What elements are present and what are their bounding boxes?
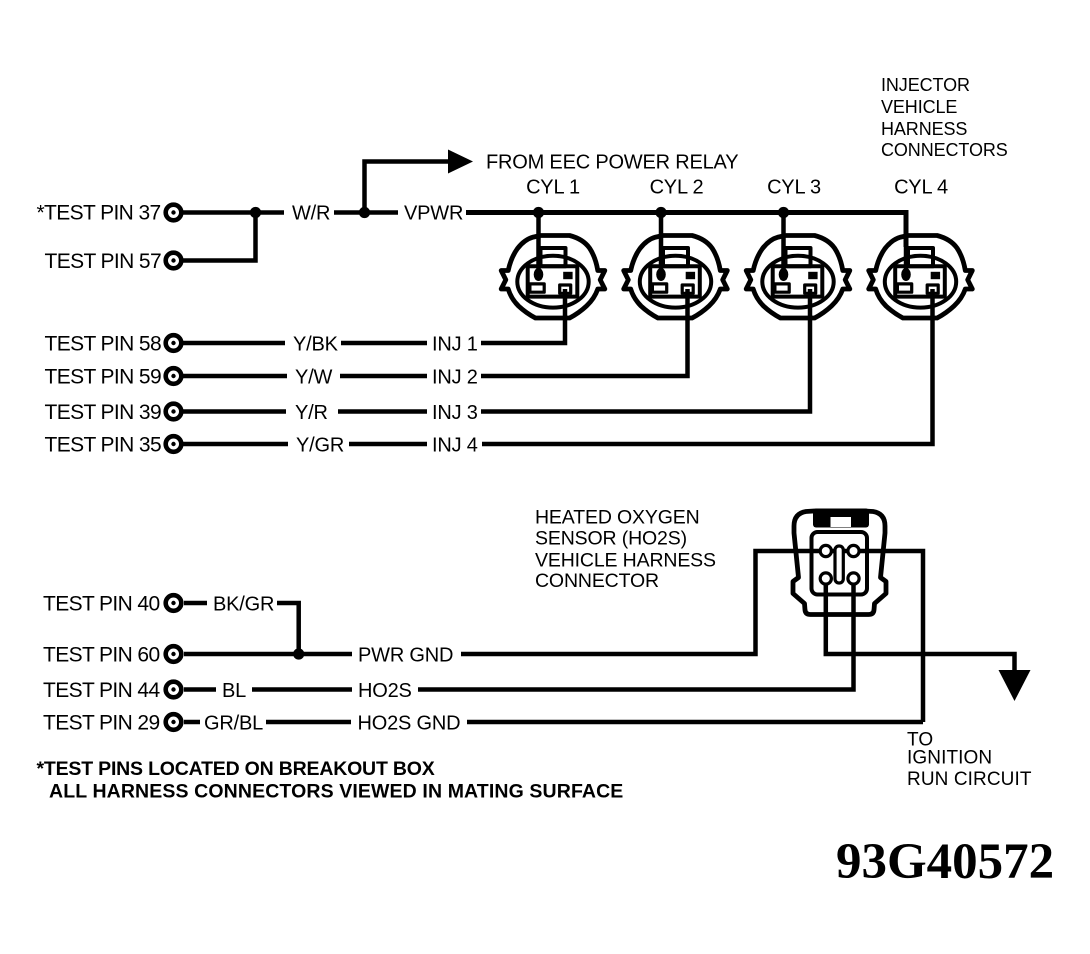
svg-text:CYL 1: CYL 1 [526, 177, 580, 199]
HO2S connector inner cavity [812, 532, 868, 595]
wire test pin 37 to W/R [183, 210, 284, 215]
junction node at 364 [359, 207, 370, 218]
wire into cyl3 pin [781, 213, 786, 272]
svg-text:TEST PIN 58: TEST PIN 58 [45, 333, 162, 356]
injector connector CYL 4 [869, 236, 973, 319]
svg-text:CYL 3: CYL 3 [767, 177, 821, 199]
HO2S connector key slot [835, 546, 843, 583]
wire test pin 29 to GR/BL [184, 720, 200, 725]
wire Y/BK to INJ 1 [341, 341, 427, 346]
wire test pin 39 to Y/R [183, 409, 286, 414]
wire PWR GND to HO2S connector top line [461, 551, 923, 722]
svg-text:CONNECTORS: CONNECTORS [881, 140, 1008, 160]
svg-text:GR/BL: GR/BL [204, 713, 263, 735]
svg-text:VEHICLE HARNESS: VEHICLE HARNESS [535, 549, 716, 571]
terminal test pin 29 [166, 714, 182, 730]
svg-text:RUN CIRCUIT: RUN CIRCUIT [907, 769, 1032, 790]
label TO IGNITION RUN CIRCUIT [907, 730, 1032, 790]
svg-text:PWR GND: PWR GND [358, 645, 453, 667]
svg-text:TEST PIN 57: TEST PIN 57 [45, 250, 162, 273]
svg-text:CYL 4: CYL 4 [894, 177, 948, 199]
svg-text:BL: BL [222, 680, 246, 702]
wire Y/W to INJ 2 [340, 374, 427, 379]
wire HO2S to connector bottom right pin [418, 579, 854, 690]
wire test pin 59 to Y/W [183, 374, 287, 379]
svg-text:TEST PIN 60: TEST PIN 60 [43, 644, 160, 667]
wire INJ 1 to cyl1 connector [481, 289, 565, 343]
svg-text:93G40572: 93G40572 [836, 834, 1054, 890]
svg-text:TEST PIN 29: TEST PIN 29 [43, 712, 160, 735]
HO2S pin top left [820, 545, 831, 556]
terminal test pin 44 [166, 682, 182, 698]
terminal test pin 39 [166, 404, 182, 420]
terminal test pin 37 [166, 205, 182, 221]
HO2S pin bottom right [848, 573, 859, 584]
HO2S pin bottom left [820, 573, 831, 584]
svg-text:SENSOR (HO2S): SENSOR (HO2S) [535, 528, 687, 550]
junction node cyl2 [655, 207, 666, 218]
terminal test pin 40 [166, 595, 182, 611]
svg-text:HEATED OXYGEN: HEATED OXYGEN [535, 507, 700, 529]
arrowhead to ignition run circuit [999, 670, 1031, 701]
svg-text:CONNECTOR: CONNECTOR [535, 570, 659, 592]
wire stub up to EEC relay arrow [365, 162, 450, 213]
svg-text:INJ 4: INJ 4 [432, 435, 478, 457]
wire test pin 57 up to junction [183, 213, 256, 261]
svg-text:ALL HARNESS CONNECTORS VIEWED: ALL HARNESS CONNECTORS VIEWED IN MATING … [49, 781, 623, 803]
svg-text:VEHICLE: VEHICLE [881, 97, 957, 117]
wire HO2S GND to vertical [467, 720, 923, 725]
label HEATED OXYGEN SENSOR (HO2S) VEHICLE HARNESS CONNECTOR [535, 507, 716, 592]
svg-text:INJ 3: INJ 3 [432, 402, 478, 424]
wire into cyl2 pin [659, 213, 664, 272]
svg-text:Y/GR: Y/GR [296, 435, 344, 457]
pin blob cyl2 [656, 268, 666, 281]
wire VPWR rail [466, 213, 906, 248]
svg-text:TEST PIN 35: TEST PIN 35 [45, 434, 162, 457]
arrowhead to EEC power relay [448, 150, 473, 174]
injector connector CYL 2 [624, 236, 728, 319]
wire into cyl1 pin [536, 213, 541, 272]
HO2S pin top right [848, 545, 859, 556]
svg-text:FROM EEC POWER RELAY: FROM EEC POWER RELAY [486, 152, 738, 174]
svg-text:TEST PIN 39: TEST PIN 39 [45, 401, 162, 424]
junction node pwr gnd [293, 648, 304, 659]
svg-text:BK/GR: BK/GR [213, 594, 274, 616]
wire INJ 2 to cyl2 connector [481, 289, 688, 376]
svg-text:HO2S GND: HO2S GND [358, 713, 461, 735]
svg-text:Y/W: Y/W [295, 367, 332, 389]
wire Y/R to INJ 3 [338, 409, 427, 414]
junction node cyl3 [778, 207, 789, 218]
wire BL to HO2S [252, 687, 352, 692]
HO2S connector body [793, 511, 886, 615]
terminal test pin 35 [166, 436, 182, 452]
label INJECTOR VEHICLE HARNESS CONNECTORS [881, 75, 1008, 160]
junction node at 255 [250, 207, 261, 218]
wire GR/BL to HO2S GND [266, 720, 351, 725]
svg-text:*TEST PIN 37: *TEST PIN 37 [37, 202, 161, 225]
wire INJ 4 to cyl4 connector [482, 289, 933, 444]
wire ignition feed from bottom left pin [826, 579, 1015, 673]
wire Y/GR to INJ 4 [349, 442, 427, 447]
injector connector CYL 3 [746, 236, 850, 319]
svg-text:*TEST PINS LOCATED ON BREAKOUT: *TEST PINS LOCATED ON BREAKOUT BOX [37, 758, 435, 780]
svg-text:HO2S: HO2S [358, 680, 412, 702]
wire test pin 40 to BK/GR [184, 601, 207, 606]
svg-text:TEST PIN 44: TEST PIN 44 [43, 679, 160, 702]
pin blob cyl4 [901, 268, 911, 281]
injector connector CYL 1 [501, 236, 605, 319]
HO2S connector tab window [831, 517, 852, 527]
wire test pin 58 to Y/BK [183, 341, 285, 346]
svg-text:TEST PIN 40: TEST PIN 40 [43, 593, 160, 616]
svg-text:Y/R: Y/R [295, 402, 328, 424]
wire W/R to VPWR [334, 210, 398, 215]
svg-text:INJ 2: INJ 2 [432, 367, 478, 389]
svg-text:HARNESS: HARNESS [881, 119, 967, 139]
footnote text [37, 758, 624, 803]
wire test pin 44 to BL [184, 687, 216, 692]
wire into cyl4 pin [904, 247, 909, 271]
svg-text:IGNITION: IGNITION [907, 748, 992, 769]
svg-text:TEST PIN 59: TEST PIN 59 [45, 366, 162, 389]
terminal test pin 58 [166, 335, 182, 351]
svg-text:W/R: W/R [292, 203, 330, 225]
svg-text:INJECTOR: INJECTOR [881, 75, 970, 95]
svg-text:Y/BK: Y/BK [293, 334, 339, 356]
terminal test pin 60 [166, 646, 182, 662]
pin blob cyl1 [534, 268, 544, 281]
terminal test pin 57 [166, 253, 182, 269]
wire test pin 60 to PWR GND [184, 652, 352, 657]
svg-text:INJ 1: INJ 1 [432, 334, 478, 356]
wire test pin 35 to Y/GR [183, 442, 288, 447]
svg-text:CYL 2: CYL 2 [650, 177, 704, 199]
wire INJ 3 to cyl3 connector [481, 289, 810, 412]
terminal test pin 59 [166, 368, 182, 384]
svg-text:VPWR: VPWR [404, 203, 463, 225]
pin blob cyl3 [779, 268, 789, 281]
junction node cyl1 [533, 207, 544, 218]
wire BK/GR down to junction [277, 603, 299, 654]
HO2S connector top tab [813, 509, 869, 528]
